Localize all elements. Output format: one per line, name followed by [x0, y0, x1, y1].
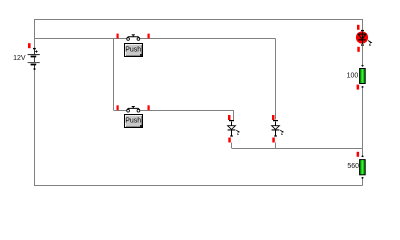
- D2 light arrows: [280, 130, 282, 131]
- R2 body: [360, 160, 366, 175]
- D3 bottom pin tick: [361, 44, 364, 45]
- SW2 right contact circle: [137, 109, 140, 112]
- push button graphic for SW2: [124, 114, 143, 128]
- battery terminal red mark top: [28, 43, 31, 48]
- R1 top pin tick: [361, 65, 364, 67]
- D1 triangle: [228, 126, 236, 130]
- SW1 left red terminal: [117, 34, 119, 39]
- D2 top pin bar: [273, 120, 278, 121]
- SW1 left contact circle: [127, 38, 130, 41]
- wire left vertical battery branch upper: [34, 19, 36, 48]
- D3 top pin tick: [361, 30, 364, 31]
- battery top pin tick: [33, 48, 36, 49]
- LED lamp D3 red indicator: [356, 25, 373, 52]
- SW1 right contact circle: [137, 38, 140, 41]
- R2 top red terminal: [357, 152, 360, 157]
- D2 triangle: [272, 126, 280, 130]
- R1 bottom pin tick: [361, 86, 364, 88]
- wire bottom rail: [34, 185, 363, 187]
- wire R560 bottom to bottom rail: [362, 178, 364, 186]
- wire LED bottom to R100: [362, 46, 364, 65]
- wire PB2 right to left-diode drop: [140, 110, 234, 112]
- wire LED top stub: [362, 19, 364, 30]
- battery cell2 long plate: [28, 62, 40, 63]
- wire drop to left diode top: [233, 111, 235, 121]
- push switch SW2: [117, 105, 150, 112]
- battery B1 12V: [13, 43, 40, 70]
- SW2 left contact circle: [127, 109, 130, 112]
- wire drop to right diode top: [275, 39, 277, 120]
- resistor R2 560: [347, 152, 365, 179]
- R2 bottom pin tick: [361, 177, 364, 179]
- battery bottom pin tick: [33, 68, 36, 70]
- wire top rail from battery to LED branch: [34, 19, 363, 186]
- D1 top red terminal: [228, 115, 231, 120]
- battery lead bottom: [34, 65, 36, 70]
- svg-text:12V: 12V: [13, 55, 26, 62]
- D3 light arrows: [368, 41, 370, 42]
- D1 top pin bar: [229, 120, 234, 121]
- wire PB2 row left part: [114, 110, 127, 112]
- push button graphic for SW1: [124, 43, 143, 57]
- D1 bottom pin tick: [230, 135, 233, 136]
- R2 top pin tick: [361, 155, 364, 157]
- SW1 plunger: [132, 35, 134, 37]
- D2 cathode bar: [272, 129, 280, 130]
- SW1 right red terminal: [148, 34, 150, 39]
- svg-text:100: 100: [347, 72, 359, 79]
- wire PB1 right to right-diode drop: [140, 38, 276, 40]
- battery cell1 thick plate: [31, 56, 37, 58]
- svg-text:560: 560: [347, 163, 359, 170]
- SW2 contact bar: [127, 108, 140, 110]
- D2 top red terminal: [272, 115, 275, 120]
- SW2 plunger: [132, 107, 134, 109]
- push switch SW1: [117, 34, 150, 41]
- battery cell1 long plate: [28, 54, 40, 55]
- D1 light arrows: [236, 130, 238, 131]
- R1 bottom red terminal: [357, 85, 360, 90]
- D2 bottom red terminal: [272, 138, 275, 143]
- D3 internal diode symbol: [362, 32, 364, 45]
- wire left vertical battery branch lower: [34, 70, 36, 186]
- D1 cathode bar: [228, 129, 236, 130]
- wire second rail battery to PB1 left: [34, 38, 127, 40]
- wire R100 bottom down to junction and R560: [362, 88, 364, 156]
- D3 bottom red terminal: [357, 47, 360, 52]
- svg-text:Push: Push: [125, 47, 141, 54]
- D1 bottom red terminal: [228, 138, 231, 143]
- wire drop to PB2: [113, 39, 115, 111]
- SW2 right red terminal: [148, 105, 150, 110]
- battery lead top: [34, 48, 36, 54]
- D2 bottom pin tick: [274, 135, 277, 136]
- D1 body line: [231, 122, 233, 137]
- wire left diode bottom to mid rail: [231, 143, 233, 149]
- D3 red circle body: [356, 31, 368, 43]
- svg-text:Push: Push: [125, 118, 141, 125]
- D2 body line: [275, 122, 277, 137]
- SW2 left red terminal: [117, 105, 119, 110]
- wire mid rail diodes to resistor junction: [232, 148, 363, 150]
- R1 body: [360, 69, 366, 84]
- battery plus sign: [35, 50, 37, 52]
- LED D1 left: [228, 115, 241, 143]
- SW1 contact bar: [127, 37, 140, 39]
- resistor R1 100: [347, 65, 366, 90]
- wire right diode bottom to mid rail: [275, 143, 277, 149]
- LED D2 right: [272, 115, 285, 143]
- D3 top red terminal: [357, 25, 360, 30]
- battery mid link: [34, 57, 35, 62]
- battery cell2 thick plate: [31, 64, 37, 66]
